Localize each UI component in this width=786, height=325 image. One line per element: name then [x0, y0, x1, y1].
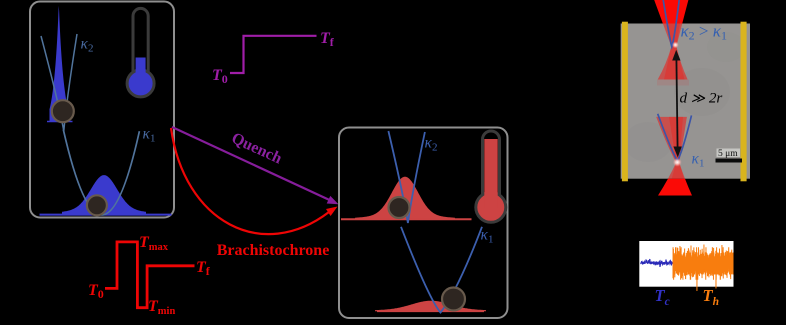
- svg-text:5 μm: 5 μm: [718, 149, 738, 159]
- svg-text:Brachistochrone: Brachistochrone: [217, 242, 330, 259]
- svg-text:κ2 > κ1: κ2 > κ1: [681, 22, 727, 43]
- svg-text:d ≫ 2r: d ≫ 2r: [680, 90, 723, 107]
